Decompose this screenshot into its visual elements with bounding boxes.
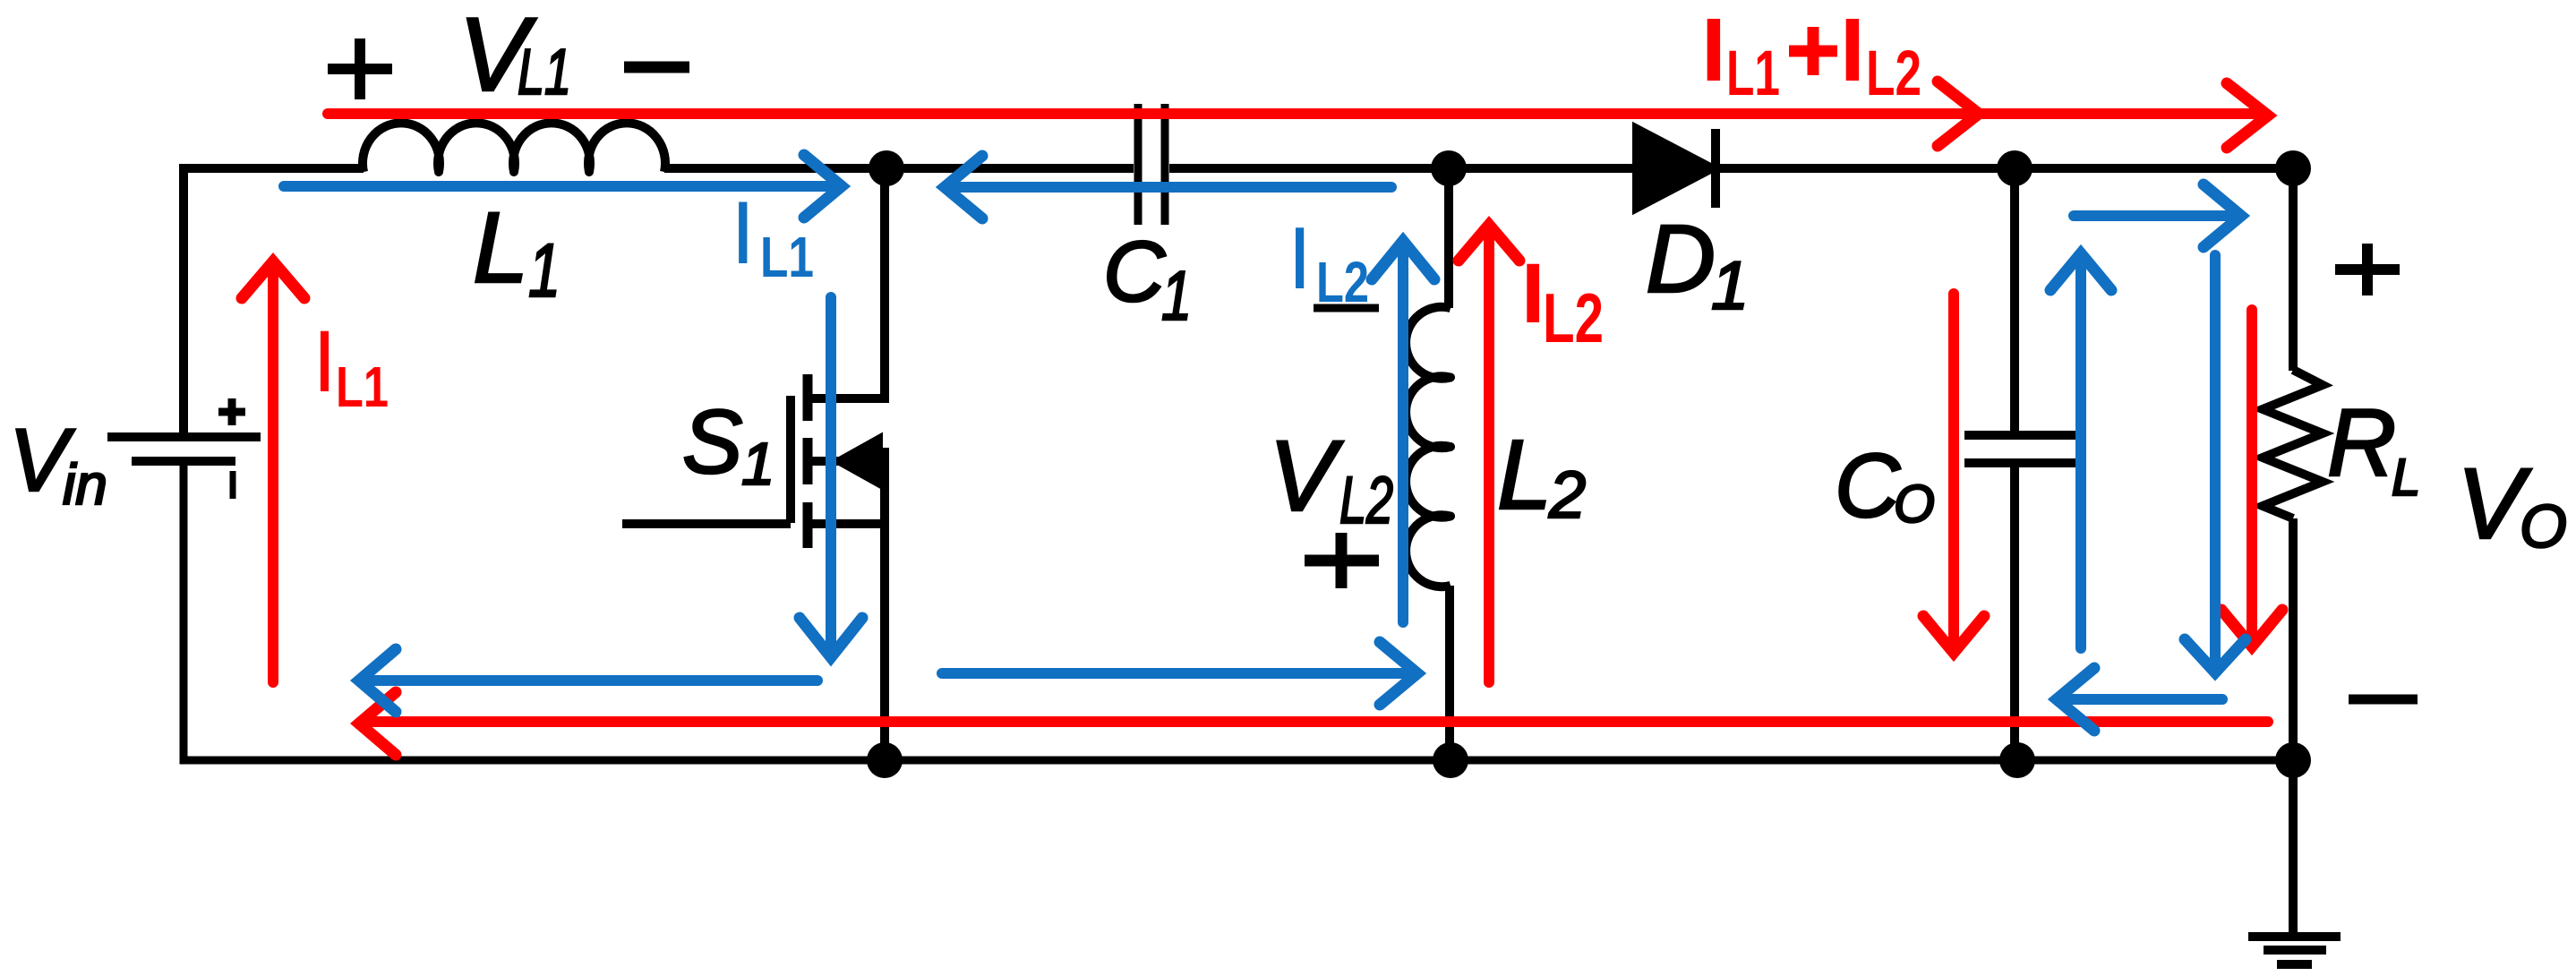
capacitor Co top wire [2010, 168, 2019, 433]
svg-text:I: I [1840, 0, 1865, 100]
minus sign Vo [2349, 695, 2418, 705]
svg-text:L: L [1497, 420, 1552, 530]
label IL1+IL2 red [1701, 0, 1921, 109]
current arrow RL down (red) [2221, 310, 2282, 646]
svg-text:V: V [1269, 420, 1344, 532]
svg-text:I: I [1288, 209, 1312, 307]
current arrow IL2 vertical (red) [1459, 225, 1519, 682]
wire battery to bottom-left corner [184, 461, 2293, 760]
battery Vin [107, 437, 261, 499]
underline of IL2 blue [1314, 304, 1379, 312]
current arrow IL1 top (blue) [284, 155, 842, 218]
svg-text:R: R [2327, 389, 2396, 496]
current arrow output bottom (blue) [2057, 668, 2222, 731]
svg-text:L1: L1 [760, 225, 814, 289]
label IL1 red [312, 312, 389, 419]
plus sign VL1 [328, 39, 392, 99]
plus sign of IL1+IL2 red [1789, 27, 1837, 75]
label IL2 red [1521, 246, 1604, 357]
svg-text:S: S [682, 392, 742, 492]
resistor RL bottom wire [2289, 518, 2298, 760]
svg-text:I: I [1521, 246, 1545, 341]
node bottom of L2 [1433, 742, 1468, 778]
current arrow IL1+IL2 top (red) [328, 81, 2268, 148]
capacitor C1 [1138, 104, 1165, 225]
current arrow IL2 up (blue) [1372, 241, 1434, 622]
node top of S1 [869, 150, 904, 186]
inductor L2 bottom wire [1445, 586, 1454, 760]
svg-text:1: 1 [528, 228, 561, 312]
node top of L2 [1431, 150, 1467, 186]
node top of Co [1997, 150, 2033, 186]
plus sign Vo [2335, 244, 2400, 295]
current arrow IL2 through C1 (blue) [945, 156, 1391, 218]
capacitor Co bottom wire [2010, 465, 2019, 760]
svg-text:1: 1 [741, 431, 775, 498]
svg-text:L: L [473, 192, 528, 304]
current arrow Co up (blue) [2050, 253, 2111, 648]
resistor RL top wire [2289, 168, 2298, 371]
svg-text:2: 2 [1548, 458, 1586, 532]
svg-text:I: I [731, 183, 756, 282]
ground [2248, 937, 2341, 964]
inductor L2 [1406, 307, 1451, 587]
capacitor Co [1964, 435, 2077, 463]
current arrow bottom return (red) [359, 692, 2268, 755]
wire top-left segment [184, 168, 364, 433]
inductor L2 top wire [1444, 168, 1453, 308]
plus sign battery [218, 398, 245, 425]
current arrow bottom left (blue) [359, 649, 817, 712]
current arrow output right down (blue) [2185, 255, 2246, 672]
svg-text:L2: L2 [1866, 39, 1921, 109]
label IL1 blue [731, 183, 814, 289]
svg-text:C: C [1835, 436, 1901, 536]
wire L1 to C1 [664, 164, 1134, 173]
diode D1 [1637, 129, 1716, 208]
wire C1 to D1 [1169, 164, 1637, 173]
node bottom of S1 [867, 742, 903, 778]
current arrow output top (blue) [2074, 184, 2241, 247]
transistor S1 gate [622, 396, 791, 524]
svg-text:L: L [2392, 449, 2420, 507]
transistor S1 drain wire [808, 168, 885, 398]
transistor S1 channel dashes [803, 374, 813, 548]
svg-text:L1: L1 [518, 37, 571, 108]
minus sign VL1 [624, 62, 689, 73]
svg-text:L1: L1 [1726, 39, 1780, 109]
current arrow bottom middle (blue) [942, 642, 1417, 705]
svg-text:O: O [2520, 492, 2567, 561]
svg-text:I: I [312, 312, 337, 410]
svg-text:L2: L2 [1339, 463, 1393, 537]
svg-text:D: D [1646, 204, 1716, 312]
svg-text:1: 1 [1161, 256, 1192, 335]
wire D1 to right corner [1712, 164, 2293, 173]
label IL2 blue [1288, 209, 1369, 314]
svg-text:C: C [1103, 224, 1166, 320]
svg-text:1: 1 [1711, 248, 1749, 324]
plus sign VL2 [1305, 533, 1379, 588]
inductor L1 [363, 123, 665, 172]
transistor S1 body arrow [808, 440, 885, 483]
node top of RL [2275, 150, 2311, 186]
transistor S1 source wire [808, 448, 885, 760]
svg-text:O: O [1894, 475, 1935, 534]
node bottom of Co [1999, 742, 2035, 778]
ground wire [2289, 760, 2298, 937]
resistor RL [2263, 370, 2323, 518]
svg-text:in: in [63, 452, 107, 517]
node bottom of RL [2275, 742, 2311, 778]
svg-text:L2: L2 [1543, 278, 1604, 357]
current arrow IL1 left vertical (red) [242, 261, 304, 682]
current arrow through S1 (blue) [800, 297, 862, 657]
current arrow Co down (red) [1923, 294, 1984, 653]
svg-text:I: I [1701, 0, 1726, 100]
svg-text:L1: L1 [336, 355, 389, 419]
